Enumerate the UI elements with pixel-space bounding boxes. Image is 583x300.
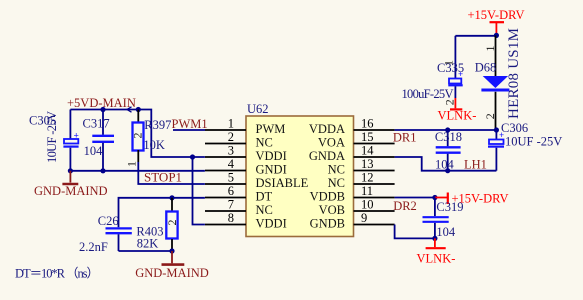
junction C318 bottom — [445, 168, 450, 173]
junction C318 top — [445, 127, 450, 132]
svg-text:VDDA: VDDA — [309, 122, 345, 136]
svg-text:C317: C317 — [83, 117, 110, 131]
power port VLNK- upper — [438, 98, 477, 123]
svg-text:1: 1 — [124, 161, 138, 167]
svg-text:10UF -25V: 10UF -25V — [505, 135, 562, 149]
pin 5 DSIABLE — [205, 171, 309, 191]
power port VLNK- lower — [417, 238, 456, 265]
pin 1 PWM — [205, 117, 285, 137]
pin 8 VDDI — [205, 211, 287, 231]
capacitor C318 — [436, 130, 461, 171]
svg-text:GND-MAIND: GND-MAIND — [135, 266, 209, 280]
svg-text:12: 12 — [361, 171, 374, 185]
svg-text:2: 2 — [483, 113, 497, 119]
svg-text:10: 10 — [361, 198, 374, 212]
pin 4 GNDI — [205, 157, 287, 177]
wire GND rail to pin 4 — [70, 170, 205, 172]
pin 10 VOB — [319, 198, 395, 218]
svg-text:HER08 US1M: HER08 US1M — [506, 28, 522, 119]
svg-text:GNDI: GNDI — [256, 163, 287, 177]
pin 7 NC — [205, 198, 273, 218]
svg-text:7: 7 — [228, 198, 234, 212]
svg-text:100uF-25V: 100uF-25V — [402, 87, 454, 101]
pin 11 VDDB — [310, 184, 395, 204]
junction R403 bottom — [169, 248, 174, 253]
svg-text:DR1: DR1 — [393, 131, 417, 145]
svg-text:DT: DT — [256, 190, 273, 204]
junction pin3 line — [190, 154, 195, 159]
svg-text:8: 8 — [228, 211, 234, 225]
svg-text:VLNK-: VLNK- — [438, 109, 477, 123]
pin 6 DT — [205, 184, 273, 204]
svg-text:D68: D68 — [475, 61, 497, 75]
wire PWM1 to pin 1 — [173, 129, 205, 131]
svg-text:1: 1 — [483, 46, 497, 52]
pin 2 NC — [205, 130, 273, 150]
svg-text:10UF -25V: 10UF -25V — [45, 111, 59, 163]
capacitor C26 — [106, 228, 132, 251]
svg-text:LH1: LH1 — [464, 158, 487, 172]
wire VDDB pin11 — [395, 197, 435, 199]
junction top node — [494, 33, 499, 38]
svg-text:VLNK-: VLNK- — [417, 252, 456, 266]
wire top node to C335 — [455, 35, 496, 37]
svg-text:NC: NC — [328, 163, 345, 177]
capacitor C305 — [63, 110, 79, 171]
svg-text:GND-MAIND: GND-MAIND — [34, 184, 108, 198]
svg-text:6: 6 — [228, 184, 234, 198]
svg-text:5: 5 — [228, 171, 234, 185]
capacitor C306 — [488, 130, 504, 171]
svg-text:104: 104 — [436, 225, 456, 239]
diode D68 — [481, 35, 509, 130]
pin 12 NC — [328, 171, 395, 191]
power port +5VD-MAIN — [67, 96, 136, 112]
junction diode bottom node — [494, 127, 499, 132]
svg-text:10K: 10K — [143, 138, 165, 152]
wire GNDB pin9 to C319 bottom — [395, 225, 435, 239]
wire GNDA pin14 to LH1 line — [395, 157, 497, 171]
resistor R397 — [124, 110, 144, 168]
pin 13 NC — [328, 157, 395, 177]
svg-text:PWM: PWM — [256, 122, 286, 136]
svg-text:U62: U62 — [247, 102, 269, 116]
wire STOP1 to pin 5 — [138, 162, 205, 184]
svg-text:PWM1: PWM1 — [172, 117, 208, 131]
svg-text:14: 14 — [361, 144, 374, 158]
svg-text:VOA: VOA — [318, 136, 345, 150]
svg-text:2: 2 — [165, 220, 179, 226]
IC U62 body — [246, 116, 354, 237]
wire VDDI drop to pin 8 — [193, 157, 205, 225]
pin 16 VDDA — [309, 117, 395, 137]
svg-text:104: 104 — [84, 144, 104, 158]
svg-text:C335: C335 — [437, 61, 464, 75]
wire VDDA pin16 to diode node — [395, 129, 497, 131]
svg-text:C306: C306 — [501, 121, 528, 135]
junction pin11 node — [432, 195, 437, 200]
ground GND-MAIND bottom — [135, 251, 209, 280]
svg-text:DSIABLE: DSIABLE — [256, 176, 309, 190]
wire +5V rail — [70, 110, 205, 158]
pin 3 VDDI — [205, 144, 287, 164]
svg-text:R397: R397 — [144, 118, 171, 132]
svg-text:C319: C319 — [436, 200, 463, 214]
wire DT node — [119, 198, 205, 228]
svg-text:3: 3 — [228, 144, 234, 158]
svg-text:2.2nF: 2.2nF — [79, 240, 108, 254]
junction C319 bottom — [432, 236, 437, 241]
resistor R403 — [165, 198, 179, 251]
svg-text:15: 15 — [361, 130, 374, 144]
svg-text:DT＝10*R （ns）: DT＝10*R （ns） — [15, 267, 99, 281]
svg-text:VDDB: VDDB — [310, 190, 345, 204]
svg-text:VOB: VOB — [319, 203, 345, 217]
svg-text:NC: NC — [256, 203, 273, 217]
junction GND rail C305 — [68, 168, 73, 173]
pin 15 VOA — [318, 130, 395, 150]
svg-text:VDDI: VDDI — [256, 217, 287, 231]
svg-text:NC: NC — [328, 176, 345, 190]
svg-text:2: 2 — [228, 130, 234, 144]
svg-text:13: 13 — [361, 157, 374, 171]
svg-text:16: 16 — [361, 117, 374, 131]
junction DT node — [169, 195, 174, 200]
svg-text:104: 104 — [435, 158, 455, 172]
junction on rail at R397 — [136, 107, 141, 112]
power port +15V-DRV right — [435, 191, 509, 205]
svg-text:+15V-DRV: +15V-DRV — [468, 8, 525, 22]
svg-text:VDDI: VDDI — [256, 149, 287, 163]
capacitor C335 — [442, 36, 464, 106]
capacitor C317 — [92, 110, 114, 171]
svg-text:NC: NC — [256, 136, 273, 150]
svg-text:GNDB: GNDB — [310, 217, 345, 231]
svg-text:1: 1 — [228, 117, 234, 131]
svg-text:STOP1: STOP1 — [144, 170, 182, 185]
svg-text:11: 11 — [361, 184, 373, 198]
svg-text:82K: 82K — [137, 237, 159, 251]
pin 9 GNDB — [310, 211, 395, 231]
svg-text:9: 9 — [361, 211, 367, 225]
junction on rail at C317 — [100, 107, 105, 112]
capacitor C319 — [423, 198, 449, 239]
svg-text:C318: C318 — [435, 130, 462, 144]
wire C26 to R403 bottom — [119, 250, 173, 252]
svg-text:4: 4 — [228, 157, 235, 171]
junction GND rail C317 — [100, 168, 105, 173]
power port +15V-DRV top — [468, 8, 525, 35]
svg-text:C26: C26 — [98, 214, 119, 228]
svg-text:GNDA: GNDA — [309, 149, 345, 163]
svg-text:DR2: DR2 — [393, 199, 417, 213]
pin 14 GNDA — [309, 144, 395, 164]
ground GND-MAIND left — [34, 171, 108, 198]
